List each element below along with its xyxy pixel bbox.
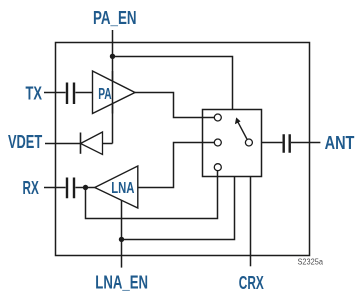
svg-text:PA: PA	[98, 86, 112, 103]
svg-text:PA_EN: PA_EN	[93, 8, 137, 28]
svg-text:VDET: VDET	[8, 132, 42, 152]
svg-text:S2325a: S2325a	[298, 258, 324, 267]
svg-text:LNA: LNA	[111, 180, 135, 197]
svg-text:RX: RX	[23, 178, 39, 198]
svg-text:ANT: ANT	[325, 133, 355, 153]
svg-text:LNA_EN: LNA_EN	[95, 273, 148, 293]
svg-text:TX: TX	[26, 84, 43, 104]
svg-text:CRX: CRX	[239, 273, 264, 293]
